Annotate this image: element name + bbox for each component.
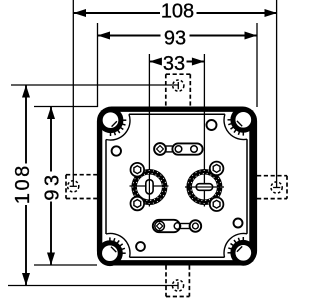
pilot hole bottom-left — [136, 242, 145, 251]
pilot hole left — [112, 146, 121, 155]
corner boss top-left — [98, 107, 130, 140]
extension line top flange screw axis (y=85) — [11, 84, 178, 86]
top terminal row — [154, 143, 202, 155]
svg-text:33: 33 — [163, 53, 185, 75]
svg-text:108: 108 — [12, 163, 34, 204]
left knockout M20 — [130, 163, 169, 210]
extension line box left edge (x=97.5) — [97, 23, 99, 107]
dimension 108 left (rotated) — [12, 85, 34, 286]
extension line box bottom edge (y=265) — [34, 264, 97, 266]
right knockout screw bottom — [210, 197, 224, 211]
svg-text:93: 93 — [42, 171, 64, 200]
dimension 108 top — [74, 1, 278, 23]
dimension 93 left (rotated) — [42, 107, 64, 266]
extension line bottom flange screw axis (y=285.5) — [8, 285, 178, 287]
bottom terminal row — [153, 220, 201, 232]
corner boss top-right — [224, 107, 256, 140]
extension line box right edge (x=257) — [256, 23, 258, 107]
pilot hole top-right — [207, 120, 217, 130]
right knockout screw top — [210, 162, 224, 176]
svg-text:93: 93 — [164, 27, 186, 49]
left knockout screw top — [131, 163, 145, 177]
lid seam line — [106, 114, 247, 257]
dimension 93 top — [98, 27, 258, 49]
left flange screw hole — [68, 181, 79, 192]
extension line left knockout axis (x=149.4) — [148, 54, 150, 207]
corner boss bottom-right — [224, 233, 256, 265]
extension line box top edge (y=106.5) — [34, 106, 98, 108]
bottom flange screw hole — [172, 280, 183, 291]
top mounting flange (dashed) — [166, 74, 191, 106]
extension line left flange screw axis (x=73.3) — [72, 0, 74, 186]
svg-text:108: 108 — [161, 1, 194, 23]
left mounting flange (dashed) — [66, 175, 98, 199]
bottom mounting flange (dashed) — [166, 266, 189, 297]
dimension 33 top — [149, 53, 204, 75]
top flange screw hole — [173, 80, 184, 91]
right mounting flange (dashed) — [257, 176, 287, 199]
right knockout M20 — [185, 162, 224, 211]
extension line right flange screw axis (x=277) — [276, 0, 278, 188]
corner boss bottom-left — [97, 233, 130, 266]
junction box outer wall — [249, 116, 252, 257]
pilot hole bottom-right — [234, 219, 243, 228]
left knockout screw bottom — [131, 197, 145, 211]
extension line right knockout axis (x=204.4) — [203, 54, 205, 207]
right flange screw hole — [271, 182, 282, 193]
